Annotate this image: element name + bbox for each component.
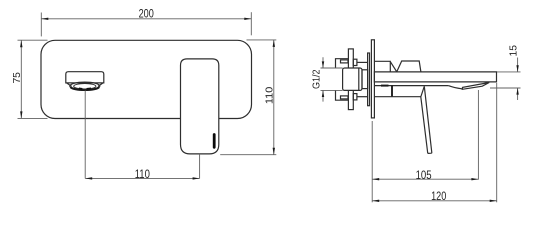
- side view: bottom coupling nub and pipe to plate: [353, 94, 367, 100]
- side view: mounting flange behind plate: [368, 53, 370, 106]
- svg-text:110: 110: [265, 86, 276, 104]
- spout outlet (front view): [66, 72, 104, 90]
- dimension G1/2: [311, 57, 342, 101]
- handle indicator tick: [213, 135, 216, 148]
- side view: escutcheon block above spout: [374, 61, 396, 72]
- dimension 75 (left): [12, 40, 48, 118]
- dimension 110 (bottom, front view): [85, 169, 199, 181]
- front view wall plate: [41, 40, 252, 118]
- svg-text:110: 110: [135, 169, 150, 181]
- extension line from wall plate down: [371, 121, 373, 202]
- dimension 15 (right): [490, 45, 521, 100]
- extension line from outlet: [477, 90, 479, 180]
- svg-text:120: 120: [431, 191, 446, 203]
- svg-text:200: 200: [139, 9, 154, 21]
- dimension 105 (side bottom): [372, 170, 478, 182]
- side view: spout outlet lip: [448, 83, 489, 90]
- svg-text:G1/2: G1/2: [311, 69, 322, 89]
- svg-text:75: 75: [12, 72, 23, 84]
- side view: lever handle: [421, 86, 432, 153]
- dimension 200 (top): [41, 9, 251, 37]
- dimension 110 (right side): [220, 40, 276, 155]
- side view: bottom inlet pipe G1/2: [336, 90, 349, 100]
- side view: cartridge dome (trapezoid): [397, 61, 421, 72]
- side view: wall plate edge-on: [371, 40, 374, 118]
- side view: body under spout: [374, 86, 448, 97]
- side view: spout bar: [374, 72, 496, 82]
- handle (front view): [181, 59, 219, 154]
- centerline from spout: [84, 90, 86, 178]
- side view: top inlet pipe G1/2: [336, 59, 349, 68]
- side view: concealed valve body: [343, 68, 368, 90]
- extension line from spout tip: [496, 83, 498, 202]
- svg-text:105: 105: [416, 170, 432, 182]
- side view: mounting bracket bar: [348, 49, 353, 110]
- svg-text:15: 15: [509, 45, 520, 57]
- dimension 120 (side bottom): [372, 191, 497, 203]
- side view: top coupling nub and pipe to plate: [353, 59, 367, 65]
- centerline from handle: [199, 154, 201, 179]
